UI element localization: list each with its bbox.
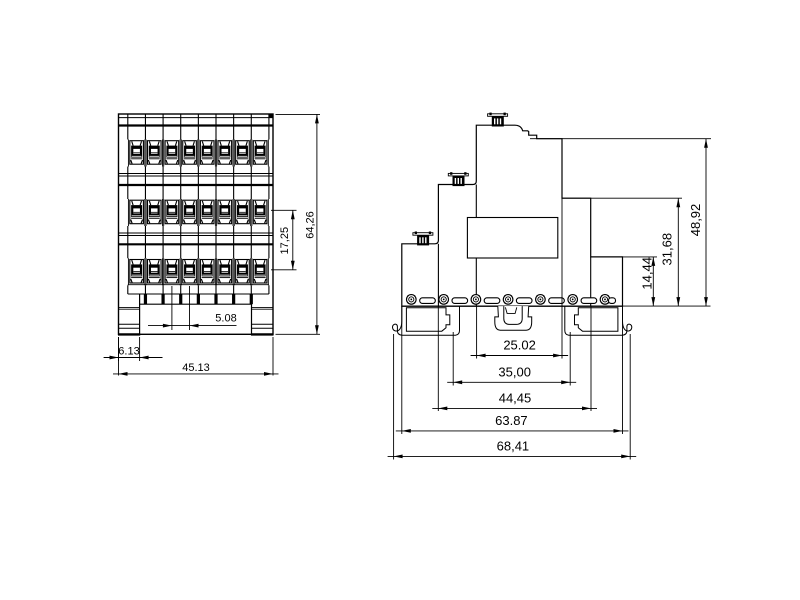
divider tooth 6 [232, 294, 235, 304]
column separator wall row1 c1 [144, 126, 146, 140]
top band wall c7 [250, 114, 252, 126]
column separator wall row3 c5 [215, 244, 217, 258]
clamp surround row2 col8 [252, 199, 268, 226]
base top edge [402, 305, 623, 307]
row separator thick line 1 [119, 124, 274, 126]
clamp surround row3 col4 [181, 258, 197, 285]
side clamp on middle step U2 [448, 172, 468, 186]
top band wall c6 [233, 114, 235, 126]
column separator wall row3 c4 [197, 244, 199, 258]
top band wall c5 [215, 114, 217, 126]
clamp surround row3 col2 [146, 258, 162, 285]
svg-text:64,26: 64,26 [305, 211, 317, 239]
small end slot [609, 298, 616, 304]
dimension 45.13 overall width [113, 337, 279, 376]
screw clamp terminal row1 col1 [130, 141, 144, 165]
dimension 44,45 [432, 407, 597, 409]
side clamp on lower step U3 [413, 232, 433, 246]
column separator wall row2 c5 [215, 185, 217, 199]
fixing screw 7 side view [600, 295, 610, 305]
row 1 lower double lines [119, 173, 274, 175]
column separator wall row1 c3 [180, 126, 182, 140]
clamp surround row1 col5 [199, 140, 215, 167]
svg-text:25.02: 25.02 [503, 338, 536, 353]
extension lines for bottom width dims [394, 198, 631, 459]
wire slot 2 [452, 298, 468, 304]
column separator wall row2 c3 [180, 185, 182, 199]
fixing screw 3 side view [471, 295, 481, 305]
front view top edge double line [119, 117, 274, 119]
dimension 35,00 [447, 381, 576, 383]
dimension 25.02 [471, 355, 568, 357]
screw clamp terminal row1 col6 [218, 141, 232, 165]
row separator thick line 2 [119, 184, 274, 186]
clamp surround row1 col6 [217, 140, 233, 167]
clamp surround row1 col4 [181, 140, 197, 167]
top band wall c8 [268, 114, 270, 126]
extension lines for height dims [530, 139, 711, 306]
centre clip pillar outer [495, 306, 532, 330]
svg-text:31,68: 31,68 [660, 233, 675, 266]
screw clamp terminal row2 col5 [200, 200, 214, 224]
screw clamp terminal row1 col8 [253, 141, 267, 165]
top band wall c2 [162, 114, 164, 126]
screw clamp terminal row3 col5 [200, 260, 214, 284]
right rail channel inner [575, 308, 618, 332]
marking label rectangle [467, 218, 557, 259]
divider tooth 3 [179, 294, 182, 304]
screw clamp terminal row2 col4 [183, 200, 197, 224]
column separator wall row1 c0 [127, 126, 129, 140]
clamp surround row2 col2 [146, 199, 162, 226]
left rail channel inner [406, 308, 449, 332]
row separator thick line 3 [119, 243, 274, 245]
centre clip pillar inner cavity [504, 306, 522, 324]
wire slot 3 [484, 298, 500, 304]
svg-text:44,45: 44,45 [499, 390, 532, 405]
column separator wall row3 c6 [233, 244, 235, 258]
screw clamp terminal row1 col2 [147, 141, 161, 165]
column separator wall row3 c1 [144, 244, 146, 258]
clamp surround row2 col5 [199, 199, 215, 226]
column separator wall row1 c4 [197, 126, 199, 140]
fixing screw 2 side view [439, 295, 449, 305]
screw clamp terminal row2 col2 [147, 200, 161, 224]
svg-text:45.13: 45.13 [182, 362, 210, 374]
internal flange edge x=590.7 [590, 257, 592, 306]
dimension 6.13 foot width [104, 337, 163, 361]
column separator wall row3 c0 [127, 244, 129, 258]
clamp surround row1 col8 [252, 140, 268, 167]
bottom band lower line [128, 293, 269, 295]
top band wall c0 [127, 114, 129, 126]
svg-text:17,25: 17,25 [279, 227, 291, 255]
column separator wall row2 c7 [250, 185, 252, 199]
column separator wall row2 c0 [127, 185, 129, 199]
screw clamp terminal row1 col7 [236, 141, 250, 165]
svg-text:5.08: 5.08 [215, 313, 236, 325]
clamp surround row3 col1 [128, 258, 144, 285]
column separator wall row2 c2 [162, 185, 164, 199]
right mounting foot [251, 294, 274, 336]
divider tooth 5 [214, 294, 217, 304]
column separator wall row3 c7 [250, 244, 252, 258]
clamp surround row1 col7 [234, 140, 250, 167]
dimension 14,44 [652, 257, 654, 306]
top band wall c4 [197, 114, 199, 126]
side clamp on top step U1 [488, 113, 508, 127]
dimension 48,92 [705, 139, 707, 306]
divider tooth 7 [250, 294, 253, 304]
dimension 17.25 row spacing [271, 210, 297, 269]
screw clamp terminal row3 col4 [183, 260, 197, 284]
screw clamp terminal row2 col7 [236, 200, 250, 224]
screw clamp terminal row3 col7 [236, 260, 250, 284]
bottom band upper line [128, 284, 269, 286]
screw clamp terminal row3 col1 [130, 260, 144, 284]
internal step edge x=476.5 [475, 185, 477, 307]
dimension 31,68 [677, 198, 679, 306]
fixing screw 1 side view [407, 295, 417, 305]
screw clamp terminal row2 col8 [253, 200, 267, 224]
left mounting foot [118, 294, 140, 336]
body bottom edge between feet [140, 303, 252, 305]
screw clamp terminal row3 col6 [218, 260, 232, 284]
screw clamp terminal row3 col8 [253, 260, 267, 284]
screw clamp terminal row2 col6 [218, 200, 232, 224]
left rail channel outer [393, 306, 460, 335]
fixing screw 4 side view [503, 295, 513, 305]
column separator wall row2 c1 [144, 185, 146, 199]
top band wall c1 [144, 114, 146, 126]
side view stepped body outline [402, 125, 623, 306]
wire slot 6 [581, 298, 597, 304]
svg-text:14,44: 14,44 [640, 257, 655, 290]
screw clamp terminal row1 col4 [183, 141, 197, 165]
wire slot 1 [420, 298, 436, 304]
fixing screw 5 side view [536, 295, 546, 305]
top right corner mark [269, 114, 273, 118]
clamp surround row3 col5 [199, 258, 215, 285]
screw clamp terminal row1 col5 [200, 141, 214, 165]
clamp surround row3 col8 [252, 258, 268, 285]
dimension 64.26 overall height [276, 114, 321, 334]
divider tooth 2 [161, 294, 164, 304]
column separator wall row1 c5 [215, 126, 217, 140]
svg-text:48,92: 48,92 [688, 204, 703, 237]
clamp surround row1 col2 [146, 140, 162, 167]
fixing screw 6 side view [568, 295, 578, 305]
clamp surround row3 col6 [217, 258, 233, 285]
clamp surround row2 col4 [181, 199, 197, 226]
clamp surround row1 col3 [164, 140, 180, 167]
column separator wall row3 c8 [268, 244, 270, 258]
terminal block front view body outline [119, 114, 274, 334]
svg-text:68,41: 68,41 [497, 438, 530, 453]
screw clamp terminal row2 col1 [130, 200, 144, 224]
dimension 5.08 pitch [148, 286, 237, 330]
column separator wall row2 c8 [268, 185, 270, 199]
svg-text:63.87: 63.87 [495, 413, 528, 428]
divider tooth 4 [197, 294, 200, 304]
column separator wall row2 c4 [197, 185, 199, 199]
clamp surround row3 col7 [234, 258, 250, 285]
wire slot 5 [549, 298, 565, 304]
wire slot 4 [516, 298, 532, 304]
screw clamp terminal row2 col3 [165, 200, 179, 224]
column separator wall row1 c7 [250, 126, 252, 140]
right rail channel outer [565, 306, 632, 335]
clamp surround row3 col3 [164, 258, 180, 285]
screw clamp terminal row3 col3 [165, 260, 179, 284]
clamp surround row2 col7 [234, 199, 250, 226]
svg-text:35,00: 35,00 [498, 364, 531, 379]
screw clamp terminal row1 col3 [165, 141, 179, 165]
column separator wall row3 c3 [180, 244, 182, 258]
row 2 lower double lines [119, 232, 274, 234]
clamp surround row1 col1 [128, 140, 144, 167]
centre clip screw notch [505, 307, 516, 313]
clamp surround row2 col3 [164, 199, 180, 226]
internal step edge x=438.4 [437, 244, 439, 306]
column separator wall row1 c6 [233, 126, 235, 140]
top band wall c3 [180, 114, 182, 126]
column separator wall row1 c8 [268, 126, 270, 140]
column separator wall row2 c6 [233, 185, 235, 199]
dimension 68,41 [388, 455, 637, 457]
clamp surround row2 col1 [128, 199, 144, 226]
divider tooth 1 [144, 294, 147, 304]
clamp surround row2 col6 [217, 199, 233, 226]
screw clamp terminal row3 col2 [147, 260, 161, 284]
dimension 63.87 [396, 430, 629, 432]
svg-text:6.13: 6.13 [118, 346, 139, 358]
column separator wall row1 c2 [162, 126, 164, 140]
column separator wall row3 c2 [162, 244, 164, 258]
